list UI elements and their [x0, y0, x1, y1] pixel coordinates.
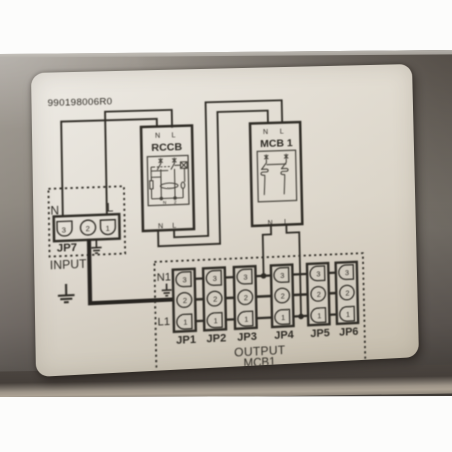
JP3 pin 1	[238, 311, 253, 326]
test resistor branch	[151, 167, 154, 199]
svg-text:1: 1	[281, 313, 285, 322]
wire N input: JP7 pin3 up and over to RCCB top N	[61, 119, 158, 216]
bus pin2 (earth rail)	[179, 292, 352, 300]
wire MCB1 L out to L1 bus	[286, 224, 301, 317]
svg-text:L1: L1	[157, 316, 170, 328]
JP2 pin 2	[207, 291, 222, 306]
svg-text:2: 2	[174, 199, 177, 205]
svg-text:JP5: JP5	[310, 327, 330, 340]
pole 2	[284, 154, 288, 159]
connector JP1 body	[173, 269, 196, 332]
wire MCB1 N out to N1 bus	[263, 225, 272, 276]
bus pin3 (N1 rail)	[179, 272, 352, 280]
svg-text:L: L	[107, 201, 114, 215]
svg-text:N1: N1	[157, 272, 172, 284]
svg-text:3: 3	[243, 273, 247, 282]
svg-text:1: 1	[244, 315, 248, 324]
connector JP5 body	[307, 263, 330, 325]
JP1 pin 3	[176, 272, 191, 287]
toroid core	[160, 183, 178, 189]
JP7 pin 2	[80, 220, 95, 235]
JP6 pin 3	[339, 265, 354, 280]
svg-text:2: 2	[213, 295, 217, 304]
svg-text:JP6: JP6	[339, 326, 359, 339]
JP6 pin 1	[340, 306, 355, 321]
JP3 pin 3	[237, 269, 252, 284]
MCB1 inner schematic box	[257, 150, 296, 202]
connector JP4 body	[271, 265, 294, 327]
linkage dashes	[153, 165, 171, 168]
svg-text:3: 3	[182, 275, 186, 284]
MCB1 internal schematic: two breaker poles	[261, 154, 289, 195]
JP2 pin 3	[206, 270, 221, 285]
JP5 pin 2	[311, 286, 326, 301]
thick earth wire from JP7 pin2 to output block pin2 bus	[89, 236, 175, 303]
svg-text:JP2: JP2	[206, 332, 226, 345]
svg-text:INPUT: INPUT	[50, 257, 88, 272]
svg-text:3: 3	[280, 271, 284, 280]
JP7 pin 3	[57, 221, 72, 236]
RCCB box	[141, 126, 194, 232]
svg-text:N: N	[155, 131, 160, 140]
svg-text:2: 2	[317, 290, 321, 299]
JP2 pin 1	[207, 313, 222, 328]
connector JP3 body	[234, 266, 257, 329]
pole N contact	[157, 160, 161, 199]
svg-text:L: L	[171, 131, 175, 140]
connector JP2 body	[203, 267, 226, 330]
svg-text:3: 3	[213, 274, 217, 283]
wire RCCB L out to MCB1 L in	[172, 100, 285, 237]
JP1 pin 1	[177, 314, 192, 329]
svg-text:RCCB: RCCB	[151, 141, 182, 154]
svg-text:1: 1	[346, 310, 350, 319]
OUTPUT dashed box	[154, 253, 365, 377]
wire RCCB N out to MCB1 N in	[156, 111, 271, 247]
JP3 pin 2	[238, 290, 253, 305]
svg-text:2: 2	[183, 296, 187, 305]
svg-text:990198006R0: 990198006R0	[48, 96, 113, 109]
svg-text:1: 1	[183, 318, 187, 327]
svg-text:L: L	[280, 127, 284, 136]
junction dot MCB1 L to bus	[298, 314, 304, 320]
svg-text:JP3: JP3	[237, 331, 257, 344]
ground symbol at JP7	[91, 239, 102, 253]
svg-text:N: N	[158, 221, 163, 230]
bus pin1 (L1 rail)	[179, 314, 352, 322]
svg-text:JP4: JP4	[274, 329, 294, 342]
svg-text:L: L	[172, 221, 176, 230]
JP4 pin 1	[275, 309, 290, 324]
bottom connections	[152, 198, 183, 199]
JP4 pin 3	[274, 268, 289, 283]
test button square	[180, 162, 187, 169]
RCCB inner schematic box	[147, 155, 189, 205]
svg-text:N: N	[263, 127, 268, 136]
svg-text:2: 2	[244, 293, 248, 302]
connector JP7 body	[54, 214, 120, 241]
wire L input: JP7 pin1 up and over to RCCB top L	[105, 110, 174, 215]
ground symbol at N1	[162, 283, 172, 296]
connector JP6 body	[336, 262, 359, 324]
svg-text:1: 1	[317, 311, 321, 320]
svg-text:1: 1	[106, 224, 110, 233]
svg-text:2: 2	[281, 291, 285, 300]
JP7 pin 1	[100, 220, 115, 235]
svg-text:1: 1	[213, 316, 217, 325]
bottom flange of metal panel	[0, 364, 452, 400]
svg-text:3: 3	[316, 269, 320, 278]
svg-text:3: 3	[345, 268, 349, 277]
svg-text:2: 2	[345, 289, 349, 298]
svg-text:MCB 1: MCB 1	[260, 138, 293, 151]
JP5 pin 1	[311, 308, 326, 323]
metal top edge highlight	[0, 49, 452, 57]
JP1 pin 2	[177, 292, 192, 307]
junction dot MCB1 N to bus	[261, 273, 267, 279]
INPUT dashed box	[48, 186, 125, 256]
trip coil	[181, 182, 185, 189]
pole 1	[264, 154, 268, 159]
JP5 pin 3	[310, 266, 325, 281]
wiring label	[31, 64, 419, 377]
svg-text:2: 2	[86, 224, 90, 233]
svg-text:JP1: JP1	[176, 334, 196, 347]
earth ground symbol below INPUT	[58, 284, 75, 303]
JP4 pin 2	[275, 288, 290, 303]
JP6 pin 2	[340, 285, 355, 300]
pole L contact	[171, 159, 175, 198]
svg-text:3: 3	[62, 226, 66, 235]
svg-text:JP7: JP7	[57, 242, 77, 255]
MCB1 box	[250, 122, 302, 226]
linkage bar	[266, 163, 286, 166]
RCCB internal schematic	[149, 157, 187, 200]
svg-text:N: N	[163, 200, 167, 206]
